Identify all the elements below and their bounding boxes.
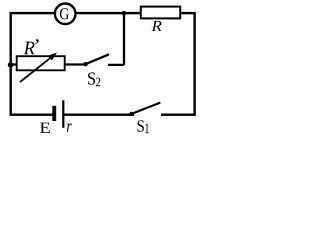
wire: S2 fixed contact segment (108, 64, 124, 66)
wire: outer circuit loop (11, 13, 195, 115)
wire: middle branch from left junction to S2 pivot (11, 63, 86, 65)
wire: vertical branch from top junction down to S2 contact (123, 12, 125, 65)
galvanometer U1 (G) (55, 4, 76, 25)
node: left junction (8, 62, 14, 68)
resistor R (141, 7, 180, 31)
node: top junction (122, 11, 127, 16)
switch S1 (129, 103, 161, 134)
switch S2 (83, 54, 109, 86)
rheostat R' (variable resistor) (17, 39, 65, 82)
battery E with internal resistance r (40, 100, 72, 133)
